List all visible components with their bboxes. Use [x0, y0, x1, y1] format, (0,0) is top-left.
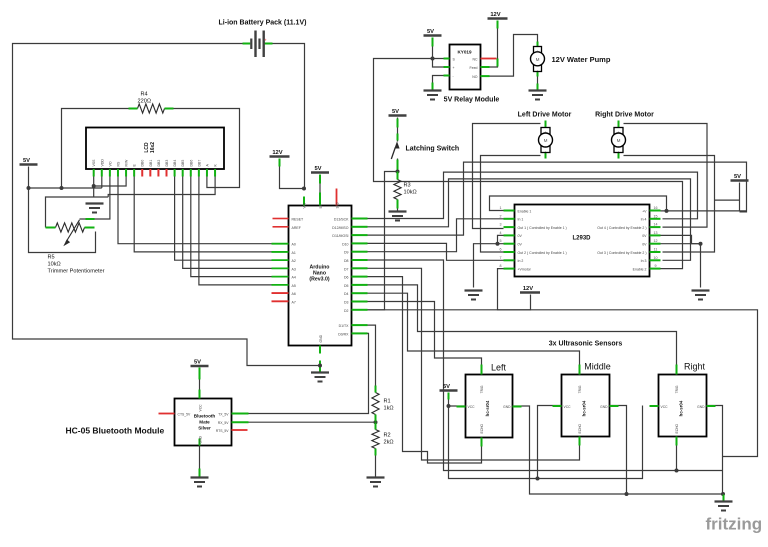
- BT RTS stub: [232, 429, 248, 431]
- L293D pin 9 number: [655, 264, 657, 268]
- wire right 0V second: [657, 243, 701, 245]
- wire Vmotor to 12V: [498, 269, 531, 310]
- L293D pin 10 number: [654, 256, 658, 260]
- svg-text:Right: Right: [684, 362, 706, 372]
- arduino D3 stub: [352, 301, 368, 303]
- svg-text:TRIG: TRIG: [675, 385, 679, 393]
- L293D right label 11: [597, 251, 646, 255]
- arduino pin label D10: [342, 242, 348, 246]
- svg-text:In 4: In 4: [641, 218, 647, 222]
- junction LCD vss rw: [92, 184, 96, 188]
- BT VCC green: [199, 368, 201, 380]
- LCD pin label DB0: [141, 160, 145, 167]
- arduino pin label GND: [319, 334, 323, 342]
- label arduino center: [309, 265, 329, 283]
- LCD pin label VO: [108, 161, 112, 166]
- potentiometer R5: [56, 223, 85, 232]
- LCD pin DB6 stub: [190, 169, 192, 177]
- wire D13 to In4: [352, 172, 698, 219]
- arduino A3 stub: [272, 267, 289, 269]
- svg-text:+: +: [618, 130, 620, 134]
- svg-text:DB6: DB6: [189, 160, 193, 167]
- LCD pin label E: [133, 164, 137, 167]
- svg-text:D1/TX: D1/TX: [339, 324, 350, 328]
- LCD pin RW stub: [125, 169, 127, 177]
- svg-text:Mate: Mate: [199, 420, 210, 425]
- svg-text:M: M: [544, 138, 548, 143]
- sensor Right gnd terminal: [707, 405, 716, 407]
- wire battery plus down to VIN node: [265, 44, 305, 189]
- svg-text:A3: A3: [292, 267, 296, 271]
- L293D motor driver body: [515, 205, 650, 277]
- wire arduino 5V drop: [319, 175, 321, 206]
- svg-text:A7: A7: [292, 300, 296, 304]
- svg-text:+: +: [453, 66, 455, 70]
- relay pin label NO: [472, 75, 478, 79]
- L293D right pin 15 stub: [650, 218, 661, 220]
- L293D right pin 10 stub: [650, 259, 661, 261]
- L293D right pin 13 stub: [650, 234, 661, 236]
- wire relay NO to pump: [481, 35, 538, 77]
- svg-text:+: +: [537, 49, 539, 53]
- LCD pin label K: [214, 164, 218, 167]
- resistor R3: [394, 180, 401, 200]
- wire RX to BT TX: [232, 333, 369, 413]
- arduino TX stub: [352, 324, 368, 326]
- wire LCD DB4 to arduino A2: [175, 177, 289, 261]
- svg-text:D10: D10: [342, 242, 348, 246]
- svg-text:R3: R3: [404, 183, 411, 189]
- svg-text:Out 3 ( Controlled by Enable 2: Out 3 ( Controlled by Enable 2 ): [597, 251, 646, 255]
- wire left vcc stub wire: [449, 405, 466, 407]
- L293D right pin 11 stub: [650, 251, 661, 253]
- LCD pin DB7 stub: [198, 169, 200, 177]
- svg-text:NO: NO: [472, 75, 478, 79]
- svg-text:6: 6: [500, 248, 502, 252]
- wire sensors 5V rail: [449, 393, 643, 479]
- BT GND green: [199, 439, 201, 446]
- arduino D12 stub: [352, 226, 368, 228]
- battery BT1: [251, 31, 267, 58]
- power 12V arduino: [270, 150, 290, 157]
- wire R2 to ground: [375, 449, 377, 478]
- arduino pin label TX: [339, 324, 350, 328]
- svg-text:1: 1: [500, 206, 502, 210]
- svg-text:D12/MISO: D12/MISO: [332, 226, 349, 230]
- power 5V arduino: [311, 166, 329, 173]
- wire right echo bus extension: [677, 470, 723, 472]
- ground sensors: [715, 502, 733, 511]
- BT pin label VCC: [199, 404, 203, 412]
- LCD pin label DB4: [173, 160, 177, 167]
- arduino A5 stub: [272, 284, 289, 286]
- power 5V pot: [20, 158, 38, 165]
- svg-text:GND: GND: [697, 405, 705, 409]
- svg-text:D6: D6: [344, 276, 349, 280]
- svg-text:DB7: DB7: [197, 160, 201, 167]
- svg-text:5V: 5V: [194, 360, 201, 366]
- svg-text:5V Relay Module: 5V Relay Module: [444, 97, 500, 104]
- svg-text:Out 2 ( Controlled by Enable 1: Out 2 ( Controlled by Enable 1 ): [518, 251, 567, 255]
- R3 top lead: [397, 172, 399, 180]
- svg-text:DB0: DB0: [141, 160, 145, 167]
- svg-text:D11/MOSI: D11/MOSI: [332, 234, 348, 238]
- sensor Left vcc terminal: [457, 406, 466, 408]
- arduino A6 stub: [272, 292, 289, 294]
- relay module KY019 body: [450, 45, 481, 90]
- wire LCD DB5 to arduino A3: [183, 177, 289, 269]
- LCD pin label RS: [116, 161, 120, 167]
- svg-text:+Vmotor: +Vmotor: [518, 267, 532, 271]
- wire LCD RS to arduino A0: [118, 177, 289, 244]
- LCD pin label DB3: [165, 160, 169, 167]
- BT pin label GND: [199, 436, 203, 444]
- junction plusV enable1: [665, 209, 669, 213]
- svg-text:RESET: RESET: [292, 218, 305, 222]
- arduino D8 stub: [352, 259, 368, 261]
- 12V water pump M1: [531, 47, 545, 73]
- arduino D4 stub: [352, 292, 368, 294]
- L293D pin 15 number: [654, 214, 658, 218]
- wire battery minus to arduino gnd bus: [13, 44, 319, 366]
- switch bottom lead: [397, 160, 399, 170]
- svg-text:M: M: [617, 138, 621, 143]
- wire 5V bus to R4 left: [62, 109, 134, 189]
- svg-text:10kΩ: 10kΩ: [404, 190, 417, 196]
- svg-text:5V: 5V: [23, 158, 30, 164]
- arduino pin label A1: [292, 251, 296, 255]
- wire BT RX to divider: [232, 421, 376, 423]
- wire LCD E to arduino A1: [134, 177, 288, 252]
- wire D2 long bus to right loop: [368, 310, 758, 457]
- label sensor Right: [684, 362, 706, 372]
- L293D left label 5: [518, 243, 523, 247]
- svg-text:D9: D9: [344, 251, 349, 255]
- pump bottom terminal: [537, 71, 539, 77]
- relay pin label plus: [453, 66, 455, 70]
- arduino pin label AREF: [292, 226, 301, 230]
- arduino RX stub: [352, 332, 368, 334]
- wire D3 to left trig: [352, 302, 482, 375]
- wire switch top from 5V: [397, 118, 399, 142]
- junction divider: [374, 420, 378, 424]
- wire D11 to top bus: [352, 162, 747, 235]
- svg-text:A5: A5: [292, 284, 296, 288]
- arduino pin label RESET: [292, 218, 305, 222]
- svg-text:7: 7: [500, 256, 502, 260]
- svg-text:R5: R5: [48, 255, 55, 261]
- junction middle gnd bus: [625, 492, 629, 496]
- LCD pin DB0 stub: [141, 169, 143, 177]
- sensor Right vcc terminal: [650, 405, 659, 407]
- svg-text:VDD: VDD: [100, 159, 104, 167]
- svg-text:5V: 5V: [427, 29, 434, 35]
- right motor top terminal: [618, 121, 620, 129]
- arduino 5V sym drop: [319, 175, 321, 184]
- wire R1 to junction: [375, 415, 377, 430]
- L293D left pin 1 stub: [504, 210, 515, 212]
- L293D left label 8: [518, 267, 532, 271]
- wire LCD K to ground line: [108, 177, 215, 198]
- latching switch SW1 lever: [391, 148, 395, 160]
- LCD pin label DB5: [181, 160, 185, 167]
- label relay module: [444, 97, 500, 104]
- relay gnd green: [432, 83, 434, 91]
- wire D12 to In3: [352, 179, 691, 260]
- svg-text:Enable 2: Enable 2: [633, 267, 647, 271]
- label R2: [384, 433, 394, 446]
- power 12V L293D: [520, 286, 540, 293]
- svg-text:(Rev3.0): (Rev3.0): [309, 277, 329, 283]
- wire relay 5V to plus pin: [433, 38, 444, 68]
- green pot left lead: [46, 227, 56, 229]
- wire right gnd drop: [707, 406, 723, 495]
- svg-text:VO: VO: [108, 161, 112, 166]
- wire D9 to In1: [352, 219, 506, 252]
- L293D pin 8 number: [500, 264, 502, 268]
- wire right motor bottom to Out3: [624, 156, 715, 253]
- latching switch SW1 arrow: [394, 141, 399, 148]
- sensor Middle echo terminal: [579, 437, 581, 446]
- ground relay: [424, 91, 442, 100]
- svg-text:GND: GND: [199, 436, 203, 444]
- sensor Right trig terminal: [676, 365, 678, 375]
- svg-text:+: +: [545, 130, 547, 134]
- svg-text:KY019: KY019: [457, 50, 471, 55]
- relay pin label S: [453, 58, 456, 62]
- svg-text:D5: D5: [344, 284, 349, 288]
- LCD pin label DB7: [197, 160, 201, 167]
- LCD pin VSS stub: [93, 169, 95, 177]
- LCD pin RS stub: [117, 169, 119, 177]
- svg-text:In 3: In 3: [641, 259, 647, 263]
- arduino 12V top green: [279, 159, 281, 167]
- L293D right pin 9 stub: [650, 268, 661, 270]
- arduino pin label A4: [292, 276, 296, 280]
- sensor Left label VCC: [468, 405, 476, 409]
- label 3x ultrasonic: [549, 341, 623, 348]
- ultrasonic sensor Middle body: [562, 375, 610, 437]
- svg-text:TRIG: TRIG: [578, 385, 582, 393]
- LCD pin label DB6: [189, 160, 193, 167]
- svg-text:D3: D3: [344, 301, 349, 305]
- svg-text:Li-ion Battery Pack (11.1V): Li-ion Battery Pack (11.1V): [219, 20, 307, 27]
- LCD pin K stub: [214, 169, 216, 177]
- arduino pin label A2: [292, 259, 296, 263]
- svg-text:15: 15: [654, 214, 658, 218]
- svg-text:Latching Switch: Latching Switch: [406, 146, 460, 153]
- sensor Right label VCC: [661, 405, 669, 409]
- svg-text:5V: 5V: [734, 174, 741, 180]
- svg-text:D7: D7: [344, 267, 349, 271]
- svg-text:NC: NC: [472, 58, 478, 62]
- ground pump: [529, 91, 547, 100]
- wire 5V drop L293D: [739, 183, 741, 211]
- L293D right label 14: [597, 226, 646, 230]
- label sensor Left: [491, 363, 507, 373]
- power 5V switch: [389, 109, 407, 116]
- L293D left label 2: [518, 218, 524, 222]
- svg-text:In 2: In 2: [518, 259, 524, 263]
- sensor Left label GND: [503, 405, 511, 409]
- svg-text:DB5: DB5: [181, 160, 185, 167]
- BT pin label RTS: [216, 429, 229, 433]
- label hc05: [66, 426, 165, 436]
- wire relay minus to ground: [433, 76, 444, 91]
- wire left motor top to Out1: [473, 124, 541, 229]
- svg-text:10kΩ: 10kΩ: [48, 262, 61, 268]
- svg-text:VCC: VCC: [564, 405, 572, 409]
- R2 top lead: [375, 423, 377, 430]
- LCD pin label RW: [125, 159, 129, 167]
- svg-text:DB4: DB4: [173, 160, 177, 167]
- ground L293D left: [465, 291, 483, 300]
- L293D left pin 6 stub: [504, 251, 515, 253]
- junction 5V bus R4: [60, 186, 64, 190]
- svg-text:2: 2: [500, 214, 502, 218]
- svg-text:TX_5V: TX_5V: [218, 413, 229, 417]
- svg-text:GND: GND: [503, 405, 511, 409]
- label sensor Middle hcsr04: [582, 400, 587, 416]
- arduino A4 stub: [272, 276, 289, 278]
- arduino AREF stub: [273, 226, 289, 228]
- svg-text:12: 12: [654, 239, 658, 243]
- svg-text:0V: 0V: [518, 234, 523, 238]
- arduino D13 stub: [352, 218, 368, 220]
- wire R4 right to LCD pin A: [169, 109, 240, 188]
- wire LCD DB6 to arduino A4: [191, 177, 289, 277]
- right drive motor M3: [612, 128, 626, 154]
- svg-text:TRIG: TRIG: [480, 385, 484, 393]
- svg-text:Feed: Feed: [470, 66, 478, 70]
- svg-text:A6: A6: [292, 292, 296, 296]
- svg-text:CTS_5V: CTS_5V: [178, 413, 192, 417]
- wire middle vcc drop: [538, 406, 562, 479]
- LCD pin VO stub: [109, 169, 111, 177]
- svg-text:GND: GND: [319, 334, 323, 342]
- sensor Right label GND: [697, 405, 705, 409]
- relay plus stub: [444, 66, 450, 68]
- svg-text:D8: D8: [344, 259, 349, 263]
- arduino GND green2: [319, 361, 321, 373]
- svg-text:VCC: VCC: [199, 404, 203, 412]
- left motor bottom terminal: [545, 151, 547, 159]
- BT 5V top green: [199, 368, 201, 373]
- svg-text:16: 16: [654, 206, 658, 210]
- sensor Left gnd terminal: [513, 406, 522, 408]
- svg-text:3V3: 3V3: [336, 202, 340, 208]
- L293D right pin 14 stub: [650, 226, 661, 228]
- wire out3 5V link: [715, 199, 740, 201]
- LCD pin VDD stub: [101, 169, 103, 177]
- wire LCD VSS to ground line: [93, 177, 95, 198]
- sensor Right label TRIG: [675, 385, 679, 393]
- svg-text:12V: 12V: [523, 286, 533, 292]
- arduino pin label D8: [344, 259, 349, 263]
- ground bluetooth: [191, 478, 209, 487]
- wire D8 to right echo: [352, 260, 677, 471]
- wire D4 to middle trig: [352, 293, 580, 374]
- svg-text:A0: A0: [292, 243, 296, 247]
- sensor Right label ECHO: [675, 424, 679, 434]
- svg-text:RTS_5V: RTS_5V: [216, 429, 229, 433]
- wire left motor bottom to Out2: [481, 156, 541, 253]
- arduino pin label RX: [338, 332, 349, 336]
- label R1: [384, 399, 394, 412]
- arduino pin label D2: [344, 309, 349, 313]
- L293D pin 7 number: [500, 256, 502, 260]
- wire middle gnd drop: [610, 406, 627, 495]
- ground R3: [389, 212, 407, 221]
- svg-text:In 1: In 1: [518, 218, 524, 222]
- R3 bottom lead: [397, 200, 399, 209]
- svg-text:2kΩ: 2kΩ: [384, 440, 394, 446]
- L293D left label 3: [518, 226, 567, 230]
- R2 bottom lead: [375, 449, 377, 456]
- BT TX stub: [232, 413, 249, 415]
- arduino pin label D9: [344, 251, 349, 255]
- svg-text:L293D: L293D: [572, 236, 591, 242]
- label sensor Right hcsr04: [679, 400, 684, 416]
- junction switch node: [396, 170, 400, 174]
- svg-text:13: 13: [654, 231, 658, 235]
- arduino pin label A6: [292, 292, 296, 296]
- svg-text:10: 10: [654, 256, 658, 260]
- svg-text:A1: A1: [292, 251, 296, 255]
- label R5: [48, 255, 105, 275]
- left motor top terminal: [545, 121, 547, 129]
- svg-text:R1: R1: [384, 399, 391, 405]
- arduino pin label A7: [292, 300, 296, 304]
- wire right 0V pins join: [657, 235, 701, 287]
- wire D6 to left echo: [352, 277, 482, 463]
- Arduino Nano U1 body: [289, 206, 352, 346]
- green VIN drop: [303, 197, 305, 206]
- svg-text:AREF: AREF: [292, 226, 301, 230]
- label sensor Middle: [584, 362, 611, 372]
- wire R3 bottom to ground: [397, 200, 399, 212]
- label L293D center: [572, 236, 591, 242]
- LCD pin label A: [205, 164, 209, 167]
- wire 5V rail to pot bottom: [29, 167, 96, 253]
- label R4: [138, 92, 152, 105]
- L293D pin 13 number: [654, 231, 658, 235]
- arduino pin label D5: [344, 284, 349, 288]
- BT pin label RX: [218, 421, 229, 425]
- wire latching switch to D2: [352, 172, 398, 310]
- wire pump to ground: [537, 72, 539, 91]
- L293D pin 2 number: [500, 214, 502, 218]
- L293D pin 5 number: [500, 239, 502, 243]
- arduino D5 stub: [352, 284, 368, 286]
- green pot wiper lead: [86, 218, 95, 220]
- wire 12V symbol to VIN node: [280, 159, 304, 189]
- svg-text:16x2: 16x2: [150, 142, 156, 153]
- arduino D7 stub: [352, 267, 368, 269]
- svg-text:0V: 0V: [642, 234, 647, 238]
- L293D left label 6: [518, 251, 567, 255]
- label KY019: [457, 50, 471, 55]
- svg-text:Right Drive Motor: Right Drive Motor: [595, 112, 654, 119]
- junction left vcc: [447, 404, 451, 408]
- wire 0V to left ground: [474, 244, 498, 288]
- svg-text:R4: R4: [141, 92, 148, 98]
- relay 5V green: [432, 38, 434, 47]
- switch top lead: [397, 119, 399, 128]
- svg-text:0V: 0V: [642, 243, 647, 247]
- arduino D11 stub: [352, 234, 368, 236]
- sensor Middle label ECHO: [578, 424, 582, 434]
